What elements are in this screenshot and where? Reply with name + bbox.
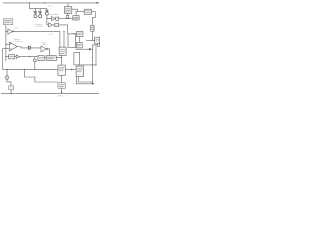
wire U2 in- from left [3, 48, 10, 50]
capacitor C3 [45, 9, 48, 19]
block PB1 [38, 56, 44, 61]
node junction E [5, 31, 6, 32]
capacitor C1 [33, 9, 37, 18]
svg-text:Comp: Comp [42, 44, 47, 46]
wire PWM row [6, 56, 9, 58]
node junction H [61, 57, 62, 58]
node junction J [6, 69, 7, 70]
pin minus [10, 48, 11, 50]
wire LB to D3 [14, 56, 16, 58]
node junction B [67, 18, 68, 19]
wire B4a to B4b [79, 37, 81, 43]
wire M1 to driver [61, 55, 63, 65]
wire right feed bus [92, 12, 96, 26]
ground rail [1, 93, 99, 95]
wire PB1 to PB2 [44, 57, 46, 59]
wire P2 to T2 stub [77, 65, 79, 66]
op-amp U1 [8, 29, 13, 34]
diode D3 [16, 55, 19, 59]
svg-text:Reference: Reference [15, 41, 23, 43]
wire SW node [75, 48, 89, 50]
wire to P1 top [67, 25, 69, 34]
block SB comp [56, 17, 59, 20]
node junction top mid [44, 2, 45, 3]
wire U3 chain [59, 18, 73, 20]
block P2 power fet [74, 52, 80, 65]
capacitor C2 [38, 9, 42, 18]
node junction I [34, 69, 35, 70]
node junction L [92, 57, 93, 58]
node junction C [76, 11, 77, 12]
block SB2 [55, 23, 59, 26]
block PB2 [46, 56, 56, 61]
block P1 power fet [68, 34, 75, 48]
op-amp U5 [49, 23, 53, 27]
block TB2 [84, 9, 91, 14]
wire right bus v2 [95, 46, 97, 65]
wire U5 chain [52, 24, 67, 26]
wire U2 in+ [6, 43, 9, 45]
wire mid horizontal bus [3, 69, 58, 71]
wire U1 long output [14, 31, 60, 47]
op-amp U4 [41, 46, 46, 52]
wire R2 leads [67, 13, 69, 18]
wire M1 stub2 [63, 31, 65, 47]
wire sw branch up [92, 45, 97, 49]
wire to error amp [47, 18, 52, 20]
node junction top rail [29, 2, 30, 3]
block B4a [76, 31, 83, 36]
node arrow sw [89, 48, 92, 51]
wire driver to T2 [65, 68, 76, 70]
wire left drop [2, 49, 4, 70]
wire U1 input [6, 30, 8, 32]
svg-text:Oscillator: Oscillator [35, 25, 43, 28]
node junction stub [29, 56, 30, 57]
wire driver to T3 [61, 75, 63, 82]
block T2 [76, 66, 84, 77]
wire D3 to PB1 [20, 56, 38, 58]
wire right link [80, 64, 96, 66]
wire U2 output [17, 47, 41, 48]
node junction N [95, 64, 96, 65]
wire U5 input [47, 19, 49, 25]
wire VIN bus vertical [5, 25, 7, 62]
wire T2 route b [76, 77, 93, 84]
block T3 [58, 83, 66, 89]
node junction G [5, 56, 6, 57]
capacitor CB mark [28, 46, 30, 49]
wire T2 route a [79, 77, 93, 82]
wire cap rail [29, 8, 47, 10]
block GB [9, 86, 14, 94]
node arrow br [93, 83, 95, 85]
wire CS1 drop [34, 62, 36, 70]
wire P1 to B4a [73, 33, 77, 35]
node junction sw [92, 49, 93, 50]
svg-text:UVLO: UVLO [14, 28, 19, 30]
wire TB1 to TB2 [72, 9, 84, 12]
current source CS1 [33, 59, 36, 62]
block LB [9, 55, 15, 59]
svg-text:AGND: AGND [57, 95, 63, 98]
node junction stub2 [63, 31, 64, 32]
block TB1 register [64, 7, 71, 14]
node U4 bubble [46, 48, 47, 49]
op-amp U2 [9, 42, 17, 51]
wire jog feedback [24, 70, 58, 82]
node junction D [92, 40, 93, 41]
wire vertical from top rail to cap rail [28, 3, 30, 9]
wire top rail VCC [3, 2, 97, 4]
node U1 bubble [13, 31, 14, 32]
node junction O [92, 81, 93, 82]
wire TB1 to top rail [67, 3, 69, 7]
current source CS2 [5, 70, 11, 86]
node junction F [5, 44, 6, 45]
wire T3 to ground rail [61, 88, 63, 92]
pin plus [10, 43, 11, 44]
svg-text:PVCC: PVCC [48, 6, 54, 8]
block TB3 [73, 16, 79, 21]
svg-text:Error Amp: Error Amp [50, 13, 59, 16]
wire node D branch [86, 39, 95, 41]
block B4b [76, 42, 82, 48]
block driver D1 [58, 65, 65, 75]
block M1 [59, 47, 66, 55]
node junction K [24, 69, 25, 70]
block R1 edge box [95, 37, 100, 44]
node arrow top-right [97, 2, 100, 4]
node arrow drv [71, 69, 73, 71]
svg-text:COMP: COMP [48, 34, 53, 36]
wire R3 to node [91, 31, 93, 40]
wire U4 output [48, 49, 50, 56]
resistor R3 [91, 25, 94, 31]
wire PB2 to driver column [56, 57, 61, 59]
block connector edge [98, 44, 100, 47]
node junction M [92, 64, 93, 65]
wire right bus v1 [91, 49, 93, 84]
block VIN box [3, 19, 13, 25]
ground arrow [61, 92, 63, 94]
wire CS1 stub [34, 57, 36, 59]
node junction A [46, 18, 47, 19]
wire TB3 riser [75, 12, 77, 16]
op-amp U3 [52, 17, 55, 21]
resistor R2 [66, 15, 69, 18]
